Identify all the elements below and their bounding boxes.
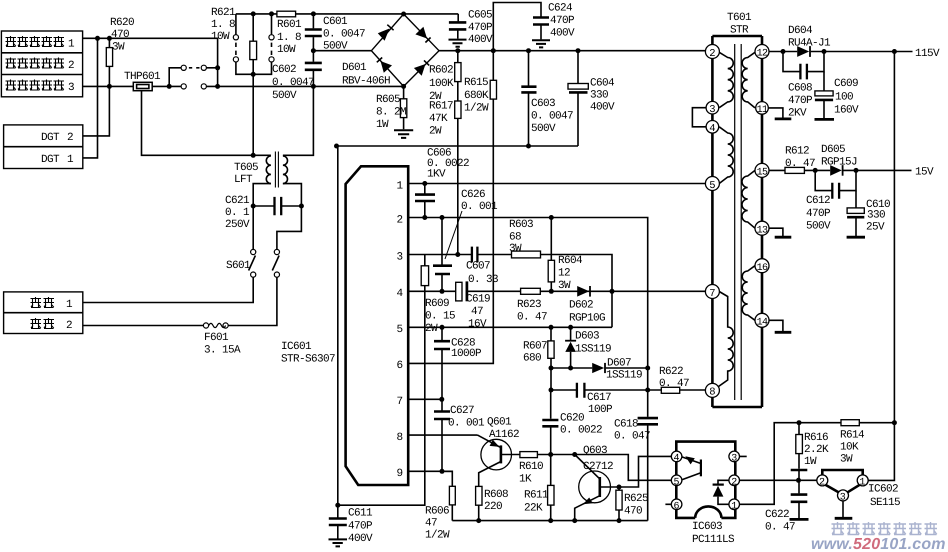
svg-text:10W: 10W: [277, 44, 296, 56]
svg-text:C601: C601: [323, 16, 348, 28]
svg-text:2: 2: [819, 478, 825, 489]
degaussing coil connector box: [1, 31, 82, 97]
diode D605: [813, 144, 912, 176]
svg-text:www.520101.com: www.520101.com: [811, 536, 946, 552]
svg-text:3: 3: [709, 104, 715, 116]
svg-text:2: 2: [66, 320, 72, 332]
svg-text:470P: 470P: [348, 521, 373, 533]
svg-text:DGT: DGT: [41, 154, 60, 166]
capacitor C619 (electrolytic): [455, 252, 490, 331]
T601 primary winding 4-5: [719, 127, 733, 184]
svg-text:3. 15A: 3. 15A: [204, 345, 241, 357]
svg-text:D603: D603: [575, 331, 599, 343]
capacitor C605: [449, 10, 493, 47]
relay contact row 1: [169, 65, 220, 86]
svg-text:470: 470: [111, 29, 129, 41]
svg-text:12: 12: [757, 49, 768, 60]
svg-text:2W: 2W: [429, 126, 442, 138]
resistor R612: [769, 146, 830, 174]
svg-text:9: 9: [397, 468, 403, 480]
ground (C624): [532, 40, 550, 47]
svg-text:DGT: DGT: [41, 132, 60, 144]
wire pin12 to 115V: [769, 51, 913, 53]
svg-text:C619: C619: [466, 294, 490, 306]
degauss box row texts (CJK approximated): [6, 36, 76, 94]
pin 9 wire: [408, 470, 452, 472]
svg-text:250V: 250V: [225, 219, 250, 231]
svg-text:T605: T605: [234, 162, 258, 174]
svg-text:2: 2: [709, 48, 715, 60]
svg-text:T601: T601: [727, 12, 752, 24]
pin 2 wire: [408, 218, 648, 391]
switch S601: [226, 249, 280, 277]
ground (pin13): [775, 236, 792, 239]
svg-text:D604: D604: [788, 25, 813, 37]
svg-text:500V: 500V: [272, 90, 297, 102]
svg-text:7: 7: [709, 288, 715, 300]
svg-text:0. 047: 0. 047: [614, 431, 650, 443]
svg-text:47: 47: [471, 306, 483, 318]
svg-text:0. 15: 0. 15: [425, 311, 455, 323]
resistor R617: [429, 101, 461, 255]
svg-text:470: 470: [624, 506, 642, 518]
svg-text:1: 1: [67, 154, 74, 166]
svg-text:Q601: Q601: [487, 417, 512, 429]
svg-text:1000P: 1000P: [451, 348, 482, 360]
svg-text:100P: 100P: [588, 404, 613, 416]
relay contact row 2 (S-switch): [107, 68, 316, 89]
svg-text:1K: 1K: [519, 474, 532, 486]
svg-text:D607: D607: [607, 358, 631, 370]
svg-text:5: 5: [674, 478, 680, 489]
wire pin14 to ground: [769, 320, 783, 331]
svg-text:0. 33: 0. 33: [468, 274, 498, 286]
capacitor C610 (electrolytic): [847, 191, 890, 237]
capacitor C607: [466, 247, 498, 286]
wire AC2 via fuse: [83, 277, 277, 325]
svg-text:220: 220: [484, 501, 502, 513]
svg-text:R610: R610: [519, 461, 543, 473]
T601 pin circles: [705, 45, 769, 399]
svg-text:12: 12: [558, 268, 570, 280]
ground (R605): [394, 130, 413, 138]
capacitor C620: [542, 390, 602, 455]
svg-text:C612: C612: [806, 195, 830, 207]
capacitor C606: [415, 148, 469, 221]
svg-text:2: 2: [731, 478, 737, 489]
capacitor C612: [806, 170, 856, 232]
thermistor THP601: [124, 71, 253, 155]
svg-text:400V: 400V: [468, 34, 493, 46]
resistor R604: [548, 215, 583, 294]
wire DGT1 riser: [83, 38, 98, 158]
svg-text:RBV-406H: RBV-406H: [342, 76, 390, 88]
svg-text:3W: 3W: [112, 42, 125, 54]
resistor R602: [429, 48, 461, 103]
capacitor C609 (electrolytic): [815, 72, 859, 119]
svg-text:7: 7: [397, 396, 403, 408]
node dot: [107, 36, 112, 41]
svg-text:6: 6: [397, 360, 403, 372]
wire opto pin2 to IC602 pin2: [740, 479, 817, 481]
resistor R611: [524, 455, 554, 521]
capacitor C602: [272, 48, 322, 102]
relay bypass contact (left, dashed): [233, 14, 253, 74]
capacitor C603: [521, 48, 573, 146]
svg-text:C602: C602: [272, 64, 296, 76]
svg-text:RGP15J: RGP15J: [821, 157, 857, 169]
svg-text:2W: 2W: [425, 323, 438, 335]
svg-text:C603: C603: [531, 98, 555, 110]
resistor R620: [106, 17, 134, 86]
pin 5 wire: [408, 326, 612, 328]
svg-text:RGP10G: RGP10G: [569, 313, 605, 325]
svg-text:8: 8: [397, 432, 403, 444]
wire degauss1 to relay: [83, 38, 218, 68]
wire AC1 to S601: [83, 277, 253, 302]
svg-text:A1162: A1162: [489, 429, 519, 441]
wire Q603 collector to opto pin4: [619, 456, 671, 487]
svg-text:R602: R602: [429, 65, 453, 77]
fuse F601: [203, 323, 241, 357]
svg-text:500V: 500V: [531, 123, 556, 135]
ground (C611): [329, 539, 348, 546]
svg-text:STR-S6307: STR-S6307: [281, 354, 335, 366]
pin 3 wire: [408, 255, 612, 328]
relay bypass contact (right of R621, dashed): [253, 11, 274, 74]
svg-text:R625: R625: [624, 493, 648, 505]
bottom emitter bus: [452, 520, 647, 522]
capacitor C617: [549, 383, 651, 416]
wire degauss3 main line: [83, 85, 404, 87]
svg-text:10K: 10K: [840, 442, 859, 454]
right rail 115V: [893, 52, 895, 423]
svg-text:330: 330: [590, 90, 608, 102]
svg-text:R615: R615: [464, 77, 488, 89]
resistor R614: [797, 420, 897, 466]
resistor R609: [338, 255, 455, 506]
svg-text:R606: R606: [425, 506, 449, 518]
svg-text:R607: R607: [523, 341, 547, 353]
svg-text:330: 330: [867, 210, 885, 222]
svg-text:1. 8: 1. 8: [211, 19, 235, 31]
svg-text:3W: 3W: [840, 454, 853, 466]
svg-text:680: 680: [523, 353, 541, 365]
primary ground return line y146: [337, 145, 579, 147]
svg-text:R622: R622: [659, 366, 683, 378]
IC601 STR-S6307 body: [281, 166, 408, 485]
top bus y14: [236, 13, 458, 15]
diode D603: [565, 325, 611, 371]
svg-text:R612: R612: [785, 146, 809, 158]
svg-text:C627: C627: [450, 405, 474, 417]
svg-text:C2712: C2712: [583, 461, 613, 473]
svg-text:3: 3: [731, 454, 737, 465]
resistor R615: [408, 48, 496, 363]
svg-text:3: 3: [397, 252, 403, 264]
svg-text:1W: 1W: [804, 456, 817, 468]
svg-text:R620: R620: [110, 17, 134, 29]
node dot: [95, 36, 100, 41]
T601 primary winding 7-8: [713, 292, 733, 391]
svg-text:5: 5: [709, 180, 715, 192]
svg-text:0. 1: 0. 1: [225, 207, 250, 219]
svg-text:1/2W: 1/2W: [464, 103, 489, 115]
svg-text:LFT: LFT: [234, 174, 253, 186]
svg-text:0. 001: 0. 001: [448, 418, 485, 430]
svg-text:C607: C607: [466, 261, 490, 273]
svg-text:115V: 115V: [915, 48, 940, 60]
resistor R623: [517, 288, 547, 323]
svg-text:8: 8: [709, 387, 715, 399]
svg-text:3: 3: [68, 82, 74, 94]
svg-text:C604: C604: [590, 78, 615, 90]
svg-text:0. 47: 0. 47: [765, 522, 795, 534]
wire pin13 to ground: [769, 228, 783, 236]
svg-text:1: 1: [66, 299, 73, 311]
svg-text:16: 16: [757, 263, 768, 274]
svg-text:R611: R611: [524, 490, 549, 502]
svg-text:IC601: IC601: [281, 341, 312, 353]
capacitor C611: [329, 503, 373, 545]
svg-text:0. 47: 0. 47: [517, 312, 547, 324]
svg-text:14: 14: [757, 318, 768, 329]
svg-text:2.2K: 2.2K: [804, 444, 829, 456]
svg-text:47K: 47K: [429, 113, 448, 125]
DGT connector box: [4, 125, 83, 169]
svg-text:C611: C611: [348, 508, 373, 520]
T601 secondary winding 15-13: [742, 170, 755, 228]
svg-text:S601: S601: [226, 260, 251, 272]
capacitor C601: [305, 11, 365, 52]
svg-text:D601: D601: [342, 62, 367, 74]
wire DGT2 riser: [83, 86, 110, 135]
svg-text:4: 4: [674, 454, 680, 465]
diode D607: [551, 358, 650, 382]
resistor R622: [648, 366, 706, 393]
svg-text:C622: C622: [765, 509, 789, 521]
main bus y51: [439, 50, 705, 52]
svg-text:0. 47: 0. 47: [785, 158, 815, 170]
ground (pin14): [775, 331, 792, 334]
svg-text:25V: 25V: [866, 222, 885, 234]
watermark: [811, 522, 946, 552]
resistor R608: [476, 486, 508, 513]
svg-text:400V: 400V: [590, 102, 615, 114]
svg-text:R605: R605: [376, 94, 400, 106]
pin 8 wire: [408, 434, 477, 436]
line filter transformer T605: [234, 86, 313, 249]
svg-text:C624: C624: [548, 3, 573, 15]
resistor R603: [509, 219, 541, 258]
svg-text:R623: R623: [517, 299, 541, 311]
svg-text:4: 4: [397, 288, 404, 300]
capacitor C608: [783, 52, 824, 120]
optocoupler IC603: [665, 442, 746, 546]
wire C611 riser: [337, 146, 339, 505]
svg-text:0. 47: 0. 47: [659, 378, 689, 390]
svg-text:1: 1: [397, 181, 404, 193]
svg-text:10W: 10W: [211, 31, 230, 43]
pin 7 wire: [408, 398, 442, 400]
svg-text:C626: C626: [461, 189, 485, 201]
svg-text:C620: C620: [560, 413, 584, 425]
svg-text:16V: 16V: [468, 319, 487, 331]
ground (C610): [847, 236, 865, 239]
svg-text:1/2W: 1/2W: [425, 530, 450, 542]
svg-text:1SS119: 1SS119: [575, 344, 611, 356]
svg-text:2: 2: [68, 60, 74, 72]
pin 1 wire to T601 pin5: [408, 183, 705, 185]
svg-text:R616: R616: [804, 432, 828, 444]
wire pin11 to ground: [768, 108, 783, 118]
svg-text:400V: 400V: [348, 533, 373, 545]
svg-text:0. 0022: 0. 0022: [560, 425, 602, 437]
svg-text:F601: F601: [204, 332, 229, 344]
regulator IC602 SE115: [817, 470, 900, 518]
svg-text:1SS119: 1SS119: [606, 370, 642, 382]
svg-text:2: 2: [397, 215, 403, 227]
svg-text:470P: 470P: [806, 208, 831, 220]
svg-text:15: 15: [757, 168, 768, 179]
svg-text:0. 001: 0. 001: [461, 201, 498, 213]
ground (pin11): [775, 118, 792, 121]
svg-text:500V: 500V: [806, 221, 831, 233]
svg-text:100K: 100K: [429, 78, 454, 90]
T601 primary winding 2-3: [719, 52, 733, 107]
capacitor C621: [225, 195, 304, 231]
svg-text:11: 11: [757, 105, 768, 116]
svg-text:C608: C608: [788, 83, 812, 95]
svg-text:1: 1: [859, 478, 865, 489]
svg-text:C621: C621: [225, 195, 250, 207]
svg-text:0. 0047: 0. 0047: [323, 29, 365, 41]
svg-text:470P: 470P: [550, 15, 575, 27]
svg-text:RU4A-J1: RU4A-J1: [788, 38, 831, 50]
svg-text:47: 47: [425, 518, 437, 530]
pin 4 wire: [408, 290, 705, 292]
capacitor C626: [433, 189, 498, 294]
ground (C609): [815, 118, 835, 121]
diode D602: [569, 286, 615, 325]
resistor R616: [796, 423, 829, 469]
capacitor C604 (electrolytic): [568, 48, 615, 146]
T601 secondary winding 16-14: [742, 266, 755, 321]
svg-text:470P: 470P: [788, 95, 813, 107]
svg-text:R603: R603: [509, 219, 533, 231]
svg-text:1: 1: [68, 39, 75, 51]
svg-text:8. 2M: 8. 2M: [376, 107, 406, 119]
svg-text:R601: R601: [277, 19, 302, 31]
resistor R610: [519, 452, 671, 486]
transformer T601: [712, 12, 762, 407]
svg-text:R614: R614: [840, 430, 865, 442]
wire opto pin1 riser to R616/R614 line: [740, 423, 842, 505]
svg-text:2: 2: [67, 132, 73, 144]
svg-text:3W: 3W: [509, 243, 522, 255]
svg-text:D602: D602: [569, 300, 593, 312]
svg-text:C609: C609: [834, 78, 858, 90]
svg-text:0. 0047: 0. 0047: [531, 111, 573, 123]
svg-text:3W: 3W: [558, 280, 571, 292]
transistor Q603: [575, 445, 622, 521]
svg-text:IC603: IC603: [692, 521, 722, 533]
svg-text:13: 13: [757, 225, 768, 236]
svg-text:1KV: 1KV: [427, 169, 446, 181]
svg-text:R621: R621: [211, 7, 236, 19]
svg-text:100: 100: [835, 92, 853, 104]
wire bridge left to C601/C602 node: [313, 50, 371, 52]
capacitor C627: [434, 399, 485, 474]
svg-text:5: 5: [397, 324, 403, 336]
transistor Q601: [478, 417, 520, 521]
svg-text:PC111LS: PC111LS: [692, 534, 735, 546]
capacitor C624: [493, 3, 575, 51]
svg-text:680K: 680K: [464, 90, 489, 102]
svg-text:4: 4: [709, 123, 715, 135]
resistor R607: [523, 325, 554, 390]
svg-text:R617: R617: [429, 101, 453, 113]
svg-text:STR: STR: [730, 25, 749, 37]
svg-text:IC602: IC602: [868, 484, 898, 496]
diode D604: [781, 25, 897, 57]
svg-text:160V: 160V: [834, 105, 859, 117]
wire IC602 pin1 to rail: [868, 423, 894, 481]
ground (C605): [449, 40, 467, 47]
AC input connector box: [4, 292, 83, 334]
svg-text:470P: 470P: [468, 22, 493, 34]
ground (C622): [790, 518, 809, 521]
capacitor C622 (stacked pair): [765, 470, 807, 534]
svg-text:THP601: THP601: [124, 71, 161, 83]
capacitor C628: [434, 325, 482, 402]
svg-text:R608: R608: [484, 489, 508, 501]
svg-text:6: 6: [674, 502, 680, 513]
svg-text:C618: C618: [614, 419, 638, 431]
capacitor C618: [614, 390, 658, 521]
svg-text:15V: 15V: [915, 167, 934, 179]
svg-text:22K: 22K: [524, 503, 543, 515]
svg-text:D605: D605: [821, 144, 845, 156]
svg-text:68: 68: [509, 232, 521, 244]
bridge rectifier D601: [342, 12, 439, 89]
T601 pins 3-4 short loop: [692, 108, 706, 127]
resistor R601: [277, 11, 302, 56]
svg-text:R609: R609: [425, 298, 449, 310]
svg-text:C617: C617: [587, 392, 611, 404]
svg-text:SE115: SE115: [870, 497, 900, 509]
T601 secondary winding 12-11: [742, 52, 755, 108]
svg-text:C605: C605: [468, 10, 492, 22]
svg-text:1W: 1W: [376, 119, 389, 131]
svg-text:400V: 400V: [550, 28, 575, 40]
svg-text:1: 1: [731, 502, 737, 513]
svg-text:0. 0047: 0. 0047: [272, 77, 314, 89]
svg-text:R604: R604: [558, 255, 583, 267]
resistor R625: [616, 487, 648, 521]
resistor R606: [425, 471, 455, 541]
svg-text:1. 8: 1. 8: [277, 32, 301, 44]
resistor R621: [211, 7, 257, 155]
resistor R605: [376, 86, 407, 131]
svg-text:Q603: Q603: [583, 445, 607, 457]
